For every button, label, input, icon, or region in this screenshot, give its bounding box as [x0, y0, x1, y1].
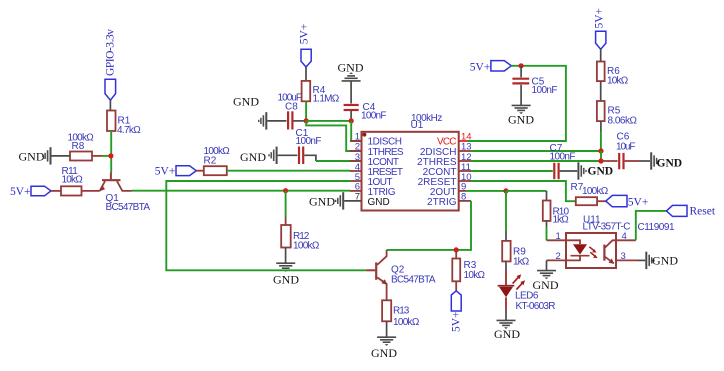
ground (C5)	[508, 105, 534, 126]
pin 3 stub 1CONT	[350, 160, 362, 162]
wire junction to junction C4	[306, 120, 351, 122]
transistor Q2	[366, 250, 436, 300]
svg-text:100nF: 100nF	[550, 151, 576, 162]
wire C7 to ground	[560, 170, 578, 172]
svg-text:GND: GND	[494, 327, 520, 341]
wire 2THRES pin12 to junction	[471, 160, 601, 162]
svg-text:GND: GND	[368, 197, 390, 208]
svg-text:3: 3	[621, 251, 626, 262]
svg-text:5V+: 5V+	[628, 197, 649, 209]
wire VCC pin14 to 5V+ rail	[467, 66, 566, 141]
svg-text:KT-0603R: KT-0603R	[516, 301, 556, 312]
net flag 5V+ (R4)	[299, 24, 312, 67]
wire R3 to 5V+ flag	[455, 281, 457, 291]
pin 6 stub 1TRIG	[350, 190, 362, 192]
ground (U11 pin2)	[533, 271, 559, 292]
svg-text:2: 2	[556, 251, 561, 262]
resistor R2	[204, 146, 231, 175]
wire GND to C8	[267, 120, 286, 122]
pin 1 stub 1DISCH	[350, 140, 362, 142]
wire LED6 to ground	[505, 297, 507, 309]
wire C8 to junction	[294, 120, 307, 122]
resistor R4	[302, 81, 340, 105]
wire junction down to R12	[285, 191, 287, 217]
ground (C7)	[578, 162, 613, 179]
wire junction to pin 1	[351, 121, 361, 141]
ground (pin 7)	[309, 192, 343, 209]
svg-text:1kΩ: 1kΩ	[553, 214, 570, 225]
pin 7 stub GND	[344, 200, 361, 202]
resistor R3	[452, 259, 485, 282]
svg-text:4.7kΩ: 4.7kΩ	[117, 125, 141, 136]
wire 5V+ flag to R6	[600, 49, 602, 62]
wire U11 pin3 to ground	[638, 259, 645, 261]
net flag Reset	[666, 205, 715, 217]
ground (U11 pin3)	[646, 252, 678, 269]
wire junction to C5	[520, 66, 522, 78]
wire junction to R3	[455, 250, 457, 259]
wire U11 pin2 to ground	[546, 260, 548, 270]
svg-text:GND: GND	[338, 61, 364, 75]
wire 5V+ flag to R11	[51, 190, 61, 192]
capacitor C6	[616, 132, 636, 170]
svg-text:R2: R2	[204, 155, 217, 166]
svg-text:1: 1	[556, 231, 561, 242]
wire GPIO flag to R1	[109, 100, 111, 111]
wire R10 to U11 pin 1	[546, 221, 548, 227]
svg-text:100kΩ: 100kΩ	[293, 240, 320, 251]
svg-text:10kΩ: 10kΩ	[464, 270, 486, 281]
svg-text:100kΩ: 100kΩ	[582, 186, 609, 197]
wire junction to junction C6	[600, 151, 602, 161]
svg-text:10kΩ: 10kΩ	[607, 76, 629, 87]
svg-text:8: 8	[461, 192, 466, 203]
svg-text:U1: U1	[411, 120, 424, 131]
led LED6	[498, 274, 556, 312]
ground (LED6)	[494, 320, 520, 341]
wire R8 to junction	[92, 155, 102, 157]
wire 2TRIG pin8 down to Q2 collector rail	[387, 201, 471, 250]
svg-text:GND: GND	[588, 165, 614, 177]
wire C5 to ground	[520, 85, 522, 105]
wire junction to C6	[601, 160, 618, 162]
svg-text:GND: GND	[273, 273, 299, 287]
svg-text:GND: GND	[652, 253, 678, 267]
ground (R13)	[371, 337, 397, 360]
wire Q1 collector to 1TRIG (pin 6 row)	[132, 190, 351, 192]
resistor R5	[597, 101, 638, 126]
capacitor C8	[278, 92, 303, 129]
resistor R12	[281, 225, 320, 251]
resistor R13	[382, 300, 420, 328]
wire junction down to R9	[505, 191, 507, 231]
net flag 5V+ (R7)	[606, 195, 649, 208]
net flag GPIO-3.3v	[105, 29, 117, 100]
resistor R7	[571, 182, 609, 205]
svg-text:100kΩ: 100kΩ	[393, 317, 420, 328]
resistor R8	[68, 133, 95, 161]
ground (C4 top)	[338, 61, 364, 81]
svg-text:GND: GND	[371, 346, 397, 360]
resistor R1	[107, 111, 141, 137]
pin 12 stub 2THRES	[459, 160, 471, 162]
svg-text:GND: GND	[309, 194, 335, 208]
svg-text:GND: GND	[533, 278, 559, 292]
wire R6 to R5	[600, 81, 602, 101]
svg-text:100nF: 100nF	[296, 136, 322, 147]
ground (C6)	[651, 152, 682, 169]
net flag 5V+ (R2)	[155, 165, 197, 177]
svg-text:5V+: 5V+	[299, 24, 311, 45]
net flag 5V+ (R3)	[451, 291, 463, 332]
wire R9 to LED6	[505, 261, 507, 270]
svg-text:10kΩ: 10kΩ	[62, 175, 84, 186]
svg-text:R13: R13	[393, 306, 410, 317]
svg-text:5V+: 5V+	[451, 311, 463, 332]
svg-text:8.06kΩ: 8.06kΩ	[608, 115, 638, 126]
svg-text:100nF: 100nF	[532, 85, 558, 96]
ground (R12)	[273, 263, 299, 286]
wire 5V+ flag to R4	[305, 67, 307, 81]
resistor R9	[502, 241, 530, 267]
wire R1 to Q1 base node	[110, 131, 112, 173]
svg-text:GND: GND	[508, 112, 534, 126]
wire 2DISCH pin13 to junction	[471, 150, 601, 152]
node junction R3	[454, 247, 459, 252]
wire 2CONT pin11 to C7	[471, 170, 553, 172]
wire 2OUT pin9 to junction	[466, 190, 506, 192]
wire R13 to ground	[386, 321, 388, 337]
pin 8 stub 2TRIG	[459, 200, 471, 202]
ic U1 556 timer	[362, 113, 459, 210]
pin 9 stub 2OUT	[459, 190, 466, 192]
node junction C5	[519, 63, 524, 68]
svg-text:5V+: 5V+	[470, 62, 491, 74]
pin 13 stub 2DISCH	[459, 150, 471, 152]
capacitor C5	[512, 76, 557, 96]
wire R2 to 1RESET (pin 4)	[227, 170, 351, 172]
ground (C1)	[240, 147, 277, 164]
svg-text:1kΩ: 1kΩ	[513, 256, 530, 267]
svg-text:5V+: 5V+	[10, 186, 31, 198]
wire 5V+ flag to R2	[196, 170, 204, 172]
svg-text:7: 7	[355, 192, 360, 203]
svg-text:5V+: 5V+	[593, 8, 605, 29]
pin 4 stub 1RESET	[350, 170, 362, 172]
node junction pin9/R9	[503, 188, 508, 193]
pin 11 stub 2CONT	[459, 170, 471, 172]
node junction C6/pin12	[598, 158, 603, 163]
svg-text:R8: R8	[72, 141, 85, 152]
svg-text:GND: GND	[19, 150, 45, 164]
pin 10 stub 2RESET	[459, 180, 471, 182]
wire R7 to 5V+ flag	[597, 200, 606, 202]
wire U11 pin4 to Reset flag	[636, 211, 667, 240]
capacitor C7	[550, 143, 576, 179]
wire C6 to ground	[625, 160, 639, 162]
net flag 5V+ (R6)	[593, 8, 606, 49]
resistor R6	[597, 62, 629, 87]
transistor Q1	[99, 172, 150, 213]
wire 2RESET pin10 to R7	[471, 181, 576, 201]
capacitor C4	[344, 102, 387, 122]
net flag 5V+ (C5)	[470, 61, 512, 74]
wire GND to C1	[278, 154, 298, 156]
svg-text:GND: GND	[657, 157, 683, 169]
wire R5 to junction pin13	[600, 121, 602, 131]
svg-text:GND: GND	[240, 150, 266, 164]
wire 5V+ flag to junction	[511, 65, 521, 67]
pin 5 stub 1OUT	[350, 180, 362, 182]
wire C4 to junction	[350, 111, 352, 121]
svg-text:BC547BTA: BC547BTA	[106, 202, 151, 213]
node junction C4	[349, 118, 354, 123]
node junction R1/R8/Q1	[108, 153, 113, 158]
node junction R12 tap	[283, 188, 288, 193]
pin 3 stub U11	[616, 259, 638, 261]
optocoupler U11	[566, 214, 675, 268]
svg-text:100nF: 100nF	[361, 110, 387, 121]
node junction R5/pin13	[598, 148, 603, 153]
wire R12 to ground	[285, 248, 287, 264]
net flag 5V+ (Q1)	[10, 186, 51, 198]
pin 2 stub 1THRES	[350, 150, 362, 152]
wire C1 to pin 3	[304, 155, 316, 161]
svg-text:5V+: 5V+	[155, 165, 176, 177]
svg-text:10uF: 10uF	[616, 142, 636, 153]
svg-text:2TRIG: 2TRIG	[427, 197, 457, 208]
resistor R10	[543, 201, 570, 226]
capacitor C1	[296, 128, 322, 164]
svg-text:BC547BTA: BC547BTA	[391, 275, 436, 286]
node junction R4/C8	[304, 118, 309, 123]
wire junction to R10	[506, 190, 547, 192]
wire 1OUT (pin 5) left and down to Q2 base	[166, 181, 366, 270]
ground (R8)	[19, 147, 51, 164]
svg-text:4: 4	[622, 231, 627, 242]
ground (C8)	[233, 94, 266, 129]
wire junction to pin 2	[306, 121, 361, 151]
pin 4 stub U11	[616, 239, 636, 241]
wire R11 to Q1 emitter	[82, 190, 100, 192]
svg-text:1.1MΩ: 1.1MΩ	[313, 94, 340, 105]
wire GND to R8	[52, 155, 71, 157]
resistor R11	[61, 166, 83, 195]
svg-text:C8: C8	[285, 102, 298, 113]
pin 14 stub VCC	[459, 140, 467, 142]
wire R4 to junction	[305, 101, 307, 121]
svg-text:Reset: Reset	[690, 206, 716, 218]
pin 1 stub U11	[547, 239, 567, 241]
pin 2 stub U11	[547, 259, 567, 261]
svg-text:GPIO-3.3v: GPIO-3.3v	[105, 29, 117, 76]
svg-text:C119091: C119091	[638, 222, 675, 233]
wire GND to C4	[350, 82, 352, 104]
svg-text:GND: GND	[233, 94, 259, 108]
